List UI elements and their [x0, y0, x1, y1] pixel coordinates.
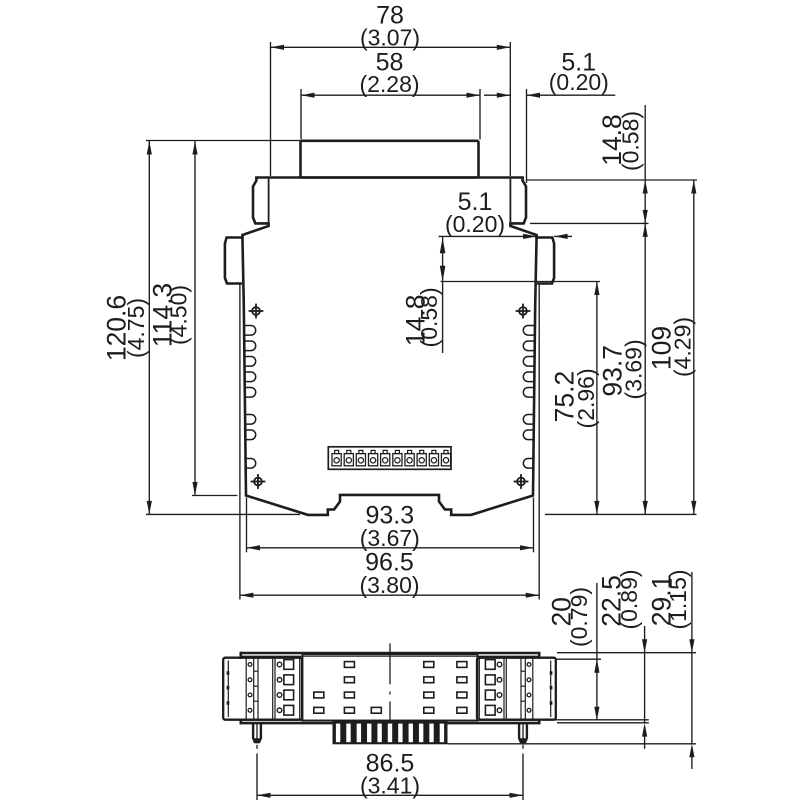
svg-text:(0.58): (0.58)	[416, 287, 442, 347]
terminal strip outline	[328, 447, 451, 470]
extension line 58 right	[479, 89, 481, 140]
extension line 86.5 right	[522, 754, 524, 800]
right fin 8	[523, 458, 534, 468]
extension line top-left	[146, 140, 300, 142]
left fin 4	[245, 372, 256, 382]
left fin 3	[245, 357, 256, 367]
extension line y659 bottom view	[556, 658, 601, 660]
extension line 120.6 bottom	[146, 513, 300, 515]
right fin 2	[523, 341, 534, 351]
dim line 93.7	[644, 223, 646, 514]
device body outline (top view)	[242, 178, 536, 515]
left fin 2	[245, 341, 256, 351]
right fin 4	[523, 372, 534, 382]
extension line y720 bottom view	[546, 719, 649, 721]
left fin 7	[245, 430, 256, 440]
left fin 5	[245, 388, 256, 398]
dim line 96.5	[240, 594, 539, 596]
extension line 96.5 right	[538, 285, 540, 600]
extension line 58 left	[300, 89, 302, 140]
terminal screw 8	[417, 450, 426, 465]
extension line y180	[527, 179, 697, 181]
right peg center line	[522, 745, 524, 749]
dim line 20	[596, 583, 598, 720]
svg-text:(1.15): (1.15)	[665, 569, 691, 629]
extension line 93.3 right	[533, 498, 535, 553]
svg-text:(3.80): (3.80)	[359, 572, 419, 598]
dim line 75.2	[596, 282, 598, 515]
terminal screw 4	[369, 450, 378, 465]
extension line y743 bottom view	[448, 743, 696, 745]
terminal screw 5	[381, 450, 390, 465]
left fin 8	[245, 458, 256, 468]
right fin 3	[523, 357, 534, 367]
svg-text:(3.67): (3.67)	[360, 525, 420, 551]
left fin 6	[245, 415, 256, 425]
bottom view main body	[241, 652, 539, 725]
top connector block	[301, 141, 479, 178]
extension line 5.1 top	[526, 89, 528, 183]
svg-text:(0.20): (0.20)	[445, 211, 505, 237]
dim line 5.1 top	[484, 94, 510, 96]
extension line 96.5 left	[239, 285, 241, 600]
svg-text:(4.75): (4.75)	[123, 298, 149, 358]
extension line 86.5 left	[256, 754, 258, 800]
dim line 5.1 inner	[439, 235, 537, 237]
crosshair marker lower-left	[251, 474, 266, 489]
dim line 22.5	[644, 626, 646, 723]
bottom view center section	[303, 654, 478, 720]
terminal screw 6	[393, 450, 402, 465]
vent slots (bottom view)	[314, 662, 467, 714]
svg-text:(3.41): (3.41)	[360, 773, 420, 799]
dim line 58	[301, 94, 480, 96]
dim line 14.8 top	[644, 105, 646, 223]
dim line 109	[693, 180, 695, 514]
extension line y652 bottom view	[557, 652, 696, 654]
right shoulder underside edge	[509, 179, 511, 226]
extension line 78 right	[509, 42, 511, 176]
left lower ear	[225, 238, 243, 284]
dim line 114.3	[194, 141, 196, 496]
crosshair marker upper-right	[516, 304, 531, 319]
right fin 7	[523, 430, 534, 440]
terminal screw 7	[405, 450, 414, 465]
extension line 114.3 bottom	[192, 495, 238, 497]
DIN clip comb	[333, 721, 448, 744]
left peg center line	[256, 745, 258, 749]
crosshair marker upper-left	[249, 304, 264, 319]
center line (bottom view)	[389, 643, 391, 684]
dim line 14.8 inner	[442, 236, 444, 353]
right fin 6	[523, 415, 534, 425]
svg-text:(4.50): (4.50)	[166, 285, 192, 345]
dim line 78	[271, 46, 511, 48]
svg-text:(0.58): (0.58)	[617, 111, 643, 171]
dim line 86.5	[257, 794, 523, 796]
extension line 93.3 left	[246, 498, 248, 553]
extension line 78 left	[270, 42, 272, 176]
dim line 120.6	[148, 141, 150, 514]
crosshair marker lower-right	[514, 474, 529, 489]
right fin 5	[523, 388, 534, 398]
right lower ear	[537, 238, 555, 284]
extension line y223	[530, 222, 649, 224]
dim line 93.3	[247, 547, 534, 549]
terminal screw 2	[344, 450, 353, 465]
terminal screw 10	[441, 450, 450, 465]
svg-text:(2.96): (2.96)	[573, 368, 599, 428]
terminal screw 9	[429, 450, 438, 465]
dim line 29.1	[691, 572, 693, 744]
svg-text:(0.89): (0.89)	[616, 569, 642, 629]
svg-text:(0.20): (0.20)	[549, 69, 609, 95]
svg-text:(3.07): (3.07)	[360, 24, 420, 50]
terminal screw 1	[332, 450, 341, 465]
bottom view right terminal block	[477, 658, 556, 720]
bottom view left terminal block	[223, 658, 302, 720]
svg-text:(2.28): (2.28)	[359, 71, 419, 97]
terminal screw 3	[356, 450, 365, 465]
left mounting peg	[252, 723, 262, 743]
right fin 1	[523, 326, 534, 336]
svg-text:(3.69): (3.69)	[621, 339, 647, 399]
extension line y514 right	[545, 513, 697, 515]
extension line y281 right	[441, 281, 601, 283]
left fin 1	[245, 326, 256, 336]
left shoulder underside edge	[268, 179, 270, 226]
right mounting peg	[518, 723, 528, 743]
svg-text:(4.29): (4.29)	[669, 317, 695, 377]
svg-text:(0.79): (0.79)	[566, 587, 592, 647]
